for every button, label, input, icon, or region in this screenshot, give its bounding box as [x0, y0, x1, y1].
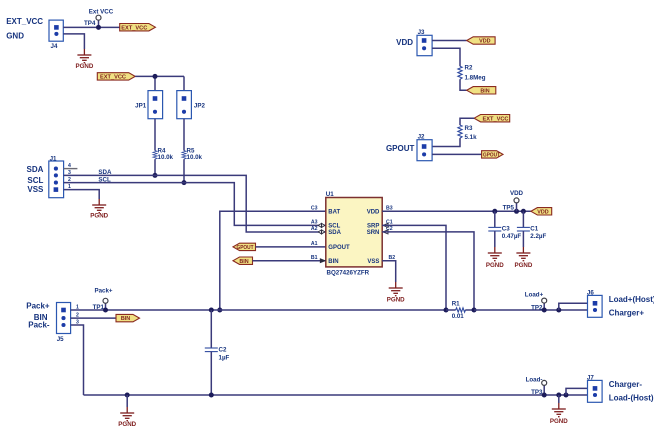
svg-text:VDD: VDD [479, 39, 490, 45]
junction J6 branch [556, 308, 561, 313]
svg-text:SCL: SCL [98, 176, 111, 183]
svg-text:SCL: SCL [328, 224, 340, 230]
svg-text:J3: J3 [418, 29, 425, 36]
svg-text:Pack+: Pack+ [94, 288, 112, 295]
wire J1 pin1 to ground [64, 190, 100, 199]
svg-text:GND: GND [6, 32, 24, 41]
svg-text:VSS: VSS [367, 259, 379, 265]
svg-text:BAT: BAT [328, 210, 340, 216]
svg-text:VDD: VDD [367, 210, 380, 216]
junction VDD at C1 [521, 209, 526, 214]
wire R3 to J2 pin1 [432, 138, 460, 146]
wire ground stem at rail [126, 395, 128, 407]
svg-text:5.1k: 5.1k [465, 134, 478, 141]
wire J4 pin2 to ground [63, 34, 84, 49]
wire J5 pin2 to BIN flag [71, 317, 116, 319]
svg-text:JP2: JP2 [194, 103, 206, 110]
svg-text:J5: J5 [57, 336, 64, 343]
svg-text:1µF: 1µF [219, 355, 230, 362]
test point TP3 [526, 376, 547, 396]
wire branch to J6 pin1 [559, 303, 588, 310]
svg-text:R2: R2 [465, 65, 473, 72]
connector J4 [49, 20, 63, 50]
svg-text:J7: J7 [587, 375, 594, 382]
junction R5 SCL [182, 180, 187, 185]
net flag GPOUT at chip [233, 243, 256, 251]
svg-text:C3: C3 [502, 225, 510, 232]
wire BIN flag to chip [253, 260, 326, 262]
ground PGND below J1 [90, 199, 108, 220]
svg-text:Load-: Load- [526, 376, 543, 383]
wire SDA net [64, 175, 326, 232]
svg-text:1.8Meg: 1.8Meg [465, 74, 486, 81]
svg-text:SDA: SDA [328, 230, 341, 236]
wire J3 pin1 to VDD flag [432, 40, 467, 42]
svg-text:J1: J1 [50, 155, 57, 162]
junction TP1 [103, 308, 108, 313]
ground PGND at TP3 [550, 403, 568, 425]
svg-text:PGND: PGND [75, 63, 93, 70]
wire R2 to BIN flag [460, 79, 467, 90]
wire Pack+ rail right to J6 [474, 309, 588, 311]
net flag BIN at chip [233, 257, 253, 265]
junction TP3 [542, 393, 547, 398]
wire J3 pin2 to R2 [432, 48, 460, 66]
resistor R3 [458, 125, 477, 141]
wire R4 to SDA line [154, 159, 156, 175]
wire SRP net [382, 225, 446, 310]
svg-text:A2: A2 [311, 226, 318, 232]
pin arrow SDA bidirectional [318, 230, 325, 234]
svg-text:PGND: PGND [550, 418, 568, 425]
wire R5 to SCL line [183, 159, 185, 182]
svg-text:TP5: TP5 [503, 204, 515, 211]
ground PGND below C3 [486, 247, 504, 269]
connector J1 [49, 155, 64, 197]
svg-text:Pack+: Pack+ [26, 302, 50, 311]
ground PGND below J4 [75, 49, 93, 70]
wire ground stem right [558, 395, 560, 403]
svg-text:PGND: PGND [118, 421, 136, 428]
junction TP4 node [96, 25, 101, 30]
wire GPOUT flag to chip [256, 246, 326, 248]
connector J7 [587, 375, 602, 403]
svg-text:TP4: TP4 [84, 20, 96, 27]
svg-text:C3: C3 [311, 206, 318, 212]
resistor R1 [446, 301, 474, 320]
wire J1 pin4 stub [64, 168, 78, 170]
svg-text:BIN: BIN [239, 259, 248, 265]
junction EXT_VCC at JP1 [153, 74, 158, 79]
svg-text:Pack-: Pack- [28, 320, 50, 329]
test point TP4 [84, 9, 114, 28]
wire J4 pin1 to EXT_VCC flag [63, 26, 119, 28]
wire SRN net [382, 232, 474, 310]
junction VDD at C3 [492, 209, 497, 214]
svg-text:VDD: VDD [537, 209, 548, 215]
wire JP1 to R4 [154, 119, 156, 151]
junction J7 branch [564, 393, 569, 398]
junction R1 right SRN [472, 308, 477, 313]
svg-text:SDA: SDA [27, 165, 44, 174]
connector J3 [417, 29, 432, 56]
svg-text:PGND: PGND [486, 262, 504, 269]
jumper JP2 [177, 91, 206, 119]
svg-text:VDD: VDD [510, 190, 524, 197]
wire bottom PGND rail [84, 394, 588, 396]
svg-text:Load-(Host): Load-(Host) [609, 393, 654, 402]
svg-text:2.2µF: 2.2µF [530, 233, 546, 240]
svg-text:EXT_VCC: EXT_VCC [6, 17, 43, 26]
power flag VDD right [531, 208, 552, 216]
svg-text:A3: A3 [311, 220, 318, 226]
svg-text:SCL: SCL [27, 176, 43, 185]
pin arrow SCL bidirectional [318, 223, 325, 227]
svg-text:SDA: SDA [98, 169, 112, 176]
svg-text:BQ27426YZFR: BQ27426YZFR [327, 269, 370, 276]
power flag EXT_VCC at R3 [474, 115, 510, 123]
svg-text:PGND: PGND [90, 213, 108, 220]
capacitor C1 [517, 211, 547, 247]
svg-text:BIN: BIN [480, 88, 489, 94]
svg-text:J2: J2 [418, 134, 425, 141]
test point TP5 [503, 190, 524, 211]
wire J2 pin2 to GPOUT flag [432, 153, 482, 155]
svg-text:R3: R3 [465, 125, 473, 132]
svg-text:SRP: SRP [367, 224, 379, 230]
svg-text:Ext VCC: Ext VCC [89, 9, 114, 16]
op-amp U1 BQ27426YZFR body [326, 191, 382, 277]
junction TP2 [542, 308, 547, 313]
capacitor C2 [205, 310, 230, 395]
svg-text:EXT_VCC: EXT_VCC [483, 116, 509, 122]
junction C2 top [209, 308, 214, 313]
test point TP2 [525, 292, 547, 312]
wire JP2 to R5 [183, 119, 185, 151]
svg-text:U1: U1 [326, 191, 334, 198]
svg-text:C1: C1 [530, 225, 538, 232]
wire SCL net [64, 183, 326, 226]
svg-text:C2: C2 [219, 347, 227, 354]
svg-text:Load+: Load+ [525, 292, 544, 299]
resistor R2 [458, 65, 486, 82]
svg-text:B1: B1 [311, 255, 318, 261]
svg-text:10.0k: 10.0k [187, 154, 203, 161]
net flag BIN at R2 [467, 87, 496, 95]
svg-text:PGND: PGND [514, 262, 532, 269]
junction PGND rail ground tap [125, 393, 130, 398]
wire BAT net from Pack rail [220, 211, 326, 310]
connector J5 [57, 303, 71, 343]
wire branch to J7 pin1 [566, 388, 588, 395]
jumper JP1 [135, 91, 162, 119]
junction C2 bottom [209, 393, 214, 398]
junction PGND tap right [556, 393, 561, 398]
resistor R4 [153, 147, 174, 161]
power flag EXT_VCC top [120, 24, 156, 32]
test point TP1 [93, 288, 113, 311]
svg-text:A1: A1 [311, 241, 318, 247]
svg-text:EXT_VCC: EXT_VCC [121, 25, 147, 31]
svg-text:Charger-: Charger- [609, 380, 643, 389]
pin arrow SRP input [383, 223, 388, 227]
svg-text:BIN: BIN [121, 316, 130, 322]
wire EXT_VCC flag to R3 [460, 118, 474, 125]
net flag BIN at J5 [116, 314, 140, 322]
junction R1 left SRP [444, 308, 449, 313]
wire VDD net [382, 210, 531, 212]
svg-text:TP1: TP1 [93, 304, 105, 311]
svg-text:VDD: VDD [396, 38, 413, 47]
ground PGND at bottom rail [118, 407, 136, 428]
wire J5 pin3 to bottom rail [71, 325, 84, 395]
svg-text:GPOUT: GPOUT [483, 153, 501, 159]
junction VDD at TP5 [514, 209, 519, 214]
svg-text:VSS: VSS [27, 185, 44, 194]
svg-text:Charger+: Charger+ [609, 308, 645, 317]
svg-text:GPOUT: GPOUT [237, 245, 255, 251]
capacitor C3 [488, 211, 521, 247]
svg-text:JP1: JP1 [135, 103, 147, 110]
svg-text:EXT_VCC: EXT_VCC [100, 75, 126, 81]
power flag EXT_VCC feeding JP1 JP2 [97, 73, 135, 81]
junction BAT at Pack rail [217, 308, 222, 313]
net flag GPOUT at J2 [482, 151, 503, 159]
svg-text:R1: R1 [452, 301, 460, 308]
svg-text:GPOUT: GPOUT [386, 144, 415, 153]
pin arrow BIN input [320, 259, 325, 263]
svg-text:Load+(Host): Load+(Host) [609, 295, 654, 304]
svg-text:PGND: PGND [387, 296, 405, 303]
svg-text:BIN: BIN [328, 259, 338, 265]
svg-text:0.01: 0.01 [452, 313, 465, 320]
ground PGND below C1 [514, 247, 532, 269]
ground PGND at VSS [387, 282, 405, 303]
power flag VDD at J3 [467, 37, 495, 45]
svg-text:0.47µF: 0.47µF [502, 233, 522, 240]
pin arrow SRN input [383, 230, 388, 234]
connector J2 [417, 134, 432, 161]
wire VSS to ground [382, 261, 396, 282]
svg-text:J6: J6 [587, 290, 594, 297]
svg-text:SRN: SRN [367, 230, 380, 236]
junction R4 SDA [153, 173, 158, 178]
svg-text:J4: J4 [51, 43, 58, 50]
svg-text:GPOUT: GPOUT [328, 245, 350, 251]
resistor R5 [182, 147, 203, 161]
svg-text:TP3: TP3 [531, 389, 543, 396]
svg-text:TP2: TP2 [531, 304, 543, 311]
svg-text:10.0k: 10.0k [158, 154, 174, 161]
wire Pack+ rail left [71, 309, 446, 311]
wire EXT_VCC net to JP1 JP2 [135, 76, 184, 90]
connector J6 [587, 290, 602, 318]
